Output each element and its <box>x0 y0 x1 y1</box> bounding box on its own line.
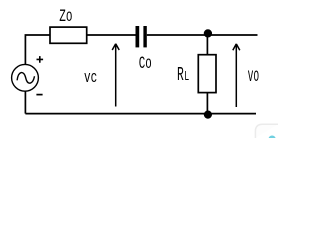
wire Zo to capacitor <box>87 34 136 36</box>
bottom rail wire <box>25 113 256 115</box>
svg-text:R: R <box>177 64 184 86</box>
vo arrow <box>233 44 240 107</box>
capacitor Co left plate <box>136 26 140 47</box>
AC source V1 circle <box>12 64 39 91</box>
svg-text:vo: vo <box>248 65 260 87</box>
resistor RL (box) <box>198 55 216 93</box>
wire top-left from source to Zo <box>25 35 50 65</box>
svg-text:Zo: Zo <box>59 7 72 27</box>
capacitor Co right plate <box>143 26 146 47</box>
minus sign <box>36 94 42 96</box>
AC source sine wave <box>17 73 34 84</box>
node dot top <box>204 29 212 37</box>
wire stub RL bottom to bottom rail <box>206 93 208 114</box>
overlay badge corner (bottom-right) <box>255 124 278 138</box>
plus sign <box>37 56 44 63</box>
wire capacitor to right end (top rail) <box>147 34 258 36</box>
wire source bottom to bottom rail <box>24 91 26 113</box>
wire stub node to RL top <box>206 35 208 55</box>
svg-text:L: L <box>184 69 189 85</box>
overlay cyan dot <box>269 136 276 143</box>
resistor Zo (box) <box>50 27 87 43</box>
node dot bottom <box>204 111 212 119</box>
vc arrow <box>112 44 119 107</box>
svg-text:Co: Co <box>139 54 152 74</box>
svg-text:vc: vc <box>84 69 97 88</box>
